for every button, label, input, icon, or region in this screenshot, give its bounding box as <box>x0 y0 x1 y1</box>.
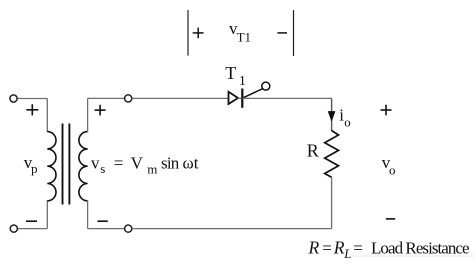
wire: between triangle tip and cathode bar <box>238 97 243 99</box>
wire: secondary bottom horizontal to terminal <box>88 228 125 230</box>
svg-text:T1: T1 <box>237 29 251 44</box>
polarity + primary top <box>26 104 38 115</box>
svg-text:R: R <box>307 141 319 161</box>
transformer core line right <box>68 124 70 205</box>
svg-text:o: o <box>344 114 351 129</box>
current arrow head i_o <box>328 111 335 121</box>
svg-text:sin: sin <box>161 154 180 173</box>
svg-text:1: 1 <box>239 74 246 89</box>
polarity + secondary top <box>95 105 106 116</box>
vT1 plus sign <box>193 28 204 39</box>
vT1 minus sign <box>277 32 287 34</box>
svg-text:R: R <box>333 237 345 257</box>
svg-text:p: p <box>31 161 38 176</box>
transformer core line left <box>62 124 64 205</box>
resistor R zigzag <box>325 131 339 178</box>
thyristor cathode bar <box>241 89 243 108</box>
wire: primary bottom vertical <box>46 201 48 229</box>
terminal: primary top circle <box>10 95 17 102</box>
faint artifact line bottom right <box>350 255 474 257</box>
svg-text:T: T <box>225 63 236 83</box>
wire: primary top horizontal <box>17 98 47 100</box>
svg-text:v: v <box>91 154 100 173</box>
wire: top rail from cathode to right corner <box>242 97 331 99</box>
svg-text:m: m <box>147 161 157 176</box>
wire: right vertical lower <box>331 177 333 228</box>
polarity + output <box>381 105 392 116</box>
svg-text:R: R <box>308 237 320 257</box>
wire: bottom rail <box>132 228 332 230</box>
svg-text:Load Resistance: Load Resistance <box>371 238 469 257</box>
svg-text:=: = <box>353 238 363 257</box>
terminal: primary bottom circle <box>10 225 17 232</box>
terminal: secondary top circle <box>125 95 132 102</box>
svg-text:V: V <box>131 154 144 173</box>
vT1 measurement left bar <box>187 10 189 56</box>
polarity - output <box>386 218 396 220</box>
wire: secondary top horizontal to terminal <box>88 97 125 99</box>
svg-text:o: o <box>389 163 396 178</box>
wire: primary top vertical <box>46 99 48 133</box>
thyristor gate lead <box>242 89 262 98</box>
svg-text:s: s <box>100 161 105 176</box>
svg-text:L: L <box>343 246 351 261</box>
wire: right vertical upper <box>331 98 333 131</box>
svg-text:ωt: ωt <box>183 154 199 173</box>
terminal: secondary bottom circle <box>125 225 132 232</box>
polarity - primary bottom <box>26 220 37 222</box>
wire: secondary bottom vertical <box>87 201 89 229</box>
wire: primary bottom horizontal <box>17 228 47 230</box>
svg-text:=: = <box>322 238 332 257</box>
transformer secondary winding <box>79 132 88 201</box>
polarity - secondary bottom <box>98 220 108 222</box>
svg-text:=: = <box>114 154 124 173</box>
transformer primary winding <box>47 132 56 201</box>
vT1 measurement right bar <box>293 10 295 56</box>
thyristor gate terminal circle <box>262 82 270 90</box>
wire: secondary top vertical <box>87 98 89 132</box>
wire: top rail from terminal to thyristor anode <box>132 97 229 99</box>
thyristor T1 triangle (anode) <box>229 92 239 104</box>
